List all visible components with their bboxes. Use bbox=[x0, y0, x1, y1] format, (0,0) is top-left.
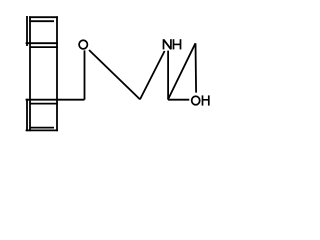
ring top edge inner double-bond line bbox=[29, 20, 54, 22]
bond ether O down-right to CH2 bbox=[89, 50, 140, 99]
bond CH2 apex down to OH bbox=[195, 43, 198, 92]
ring right edge wire bbox=[56, 16, 58, 131]
ring upper shared edge line bbox=[26, 42, 58, 44]
bond CH2 up to ether O bbox=[84, 50, 86, 99]
ring bottom edge outer line bbox=[26, 129, 58, 131]
bond NH down to CH bbox=[167, 51, 169, 100]
atom label NH (amine): letter N bbox=[164, 39, 171, 49]
ring upper shared edge second double-bond line bbox=[30, 46, 58, 48]
bond CH up-right to CH2 apex bbox=[168, 43, 195, 99]
atom label OH (hydroxyl): letter O bbox=[192, 96, 200, 105]
ring top edge outer line bbox=[29, 16, 58, 18]
atom label O (ether) bbox=[79, 40, 87, 49]
ring lower shared edge second double-bond line bbox=[30, 103, 58, 105]
bond CH right to OH bbox=[168, 99, 189, 101]
bond CH2 up-right to NH bbox=[140, 51, 165, 99]
atom label OH (hydroxyl): letter H bbox=[203, 95, 209, 105]
ring left edge wire bbox=[29, 16, 31, 131]
ring bottom square outer-left double-bond line bbox=[26, 99, 28, 131]
ring bottom edge inner double-bond line bbox=[30, 127, 54, 129]
ring lower shared edge line + bond to chain CH2 bbox=[26, 99, 85, 101]
ring top square outer-left double-bond line bbox=[26, 16, 28, 46]
atom label NH (amine): letter H bbox=[174, 39, 181, 49]
